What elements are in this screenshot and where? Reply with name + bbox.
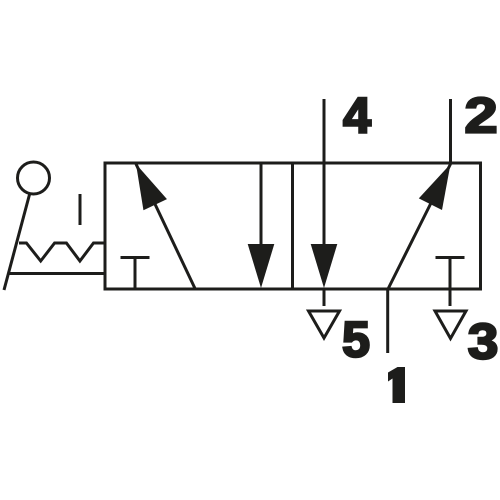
detent mark bbox=[79, 194, 82, 225]
port 1 line bbox=[386, 289, 389, 353]
port 2 line bbox=[449, 99, 452, 163]
blocked port T (left box, port 5 position) bbox=[121, 258, 150, 290]
label 1 bbox=[388, 367, 405, 403]
svg-text:5: 5 bbox=[342, 312, 370, 368]
actuator push rod bbox=[9, 272, 106, 275]
position divider line bbox=[291, 163, 294, 289]
valve body outline (two-position 5/2 valve) bbox=[105, 163, 481, 289]
blocked port T (right box, port 3 position) bbox=[436, 258, 465, 290]
actuator lever bbox=[4, 195, 30, 291]
svg-text:4: 4 bbox=[343, 88, 371, 144]
return spring zigzag bbox=[19, 243, 105, 261]
svg-text:3: 3 bbox=[468, 314, 499, 370]
port 5 stub line bbox=[323, 289, 326, 306]
flow arrow 2 to 3 (left box, down arrow) bbox=[248, 163, 275, 288]
svg-text:2: 2 bbox=[464, 87, 497, 143]
flow arrow 1 to 4 (left box diagonal, head up-left) bbox=[136, 164, 195, 289]
push-button knob circle bbox=[18, 162, 50, 194]
flow arrow 1 to 2 (right box diagonal, head up-right) bbox=[388, 164, 451, 289]
exhaust triangle port 5 bbox=[309, 311, 340, 338]
exhaust triangle port 3 bbox=[435, 311, 466, 339]
port 3 stub line bbox=[449, 289, 452, 306]
port 4 line with flow arrow 4 to 5 (right box, down arrow) bbox=[311, 99, 338, 288]
